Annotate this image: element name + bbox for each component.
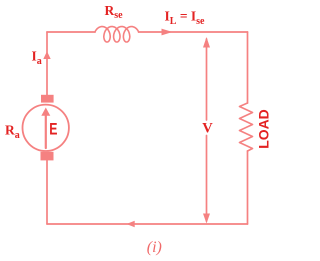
svg-text:Rse: Rse — [105, 3, 124, 21]
svg-text:(i): (i) — [147, 239, 162, 256]
svg-text:IL = Ise: IL = Ise — [165, 9, 206, 28]
svg-text:V: V — [202, 121, 213, 137]
svg-text:LOAD: LOAD — [255, 109, 271, 149]
svg-text:Ia: Ia — [32, 49, 42, 68]
svg-text:Ra: Ra — [5, 123, 20, 142]
svg-text:E: E — [49, 121, 57, 139]
